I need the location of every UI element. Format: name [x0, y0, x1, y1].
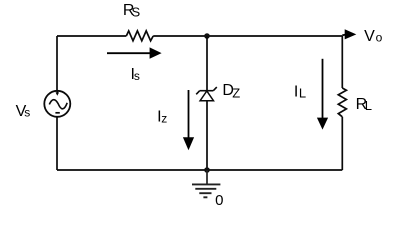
- source V1 minus sign: [55, 112, 59, 114]
- node junction dot top (node Vo): [204, 33, 210, 39]
- wire bottom horizontal: [57, 169, 342, 171]
- label IL: [294, 83, 306, 100]
- wire middle vertical lower (zener to bottom): [206, 101, 208, 171]
- source V1 label Vs: [16, 103, 31, 120]
- wire middle vertical upper (to zener): [206, 36, 208, 91]
- current arrow Is: [107, 47, 162, 58]
- current arrow IL: [317, 59, 328, 130]
- ground symbol: [192, 170, 220, 197]
- wire right vertical upper: [341, 36, 343, 88]
- label Iz: [157, 109, 167, 126]
- wire right vertical lower: [341, 117, 343, 170]
- label Vo: [364, 28, 383, 45]
- source V1 circle: [44, 91, 70, 117]
- svg-text:z: z: [161, 111, 167, 125]
- source V1 internal arrow: [56, 90, 60, 95]
- svg-text:V: V: [364, 28, 375, 45]
- svg-text:S: S: [132, 5, 141, 20]
- svg-text:0: 0: [215, 192, 223, 209]
- svg-text:s: s: [134, 69, 140, 83]
- wire left vertical (source bottom lead): [56, 117, 58, 170]
- svg-text:o: o: [376, 31, 383, 45]
- resistor RS zigzag: [126, 31, 153, 41]
- resistor RL zigzag: [338, 88, 346, 117]
- current arrow Iz: [183, 90, 194, 150]
- output arrow Vo: [342, 29, 356, 39]
- svg-text:L: L: [299, 86, 306, 101]
- svg-text:L: L: [365, 98, 372, 113]
- label Is: [131, 66, 140, 83]
- svg-text:I: I: [294, 83, 298, 100]
- node junction dot bottom (ground node): [204, 167, 210, 173]
- resistor RS label: [123, 2, 141, 20]
- wire top horizontal right segment: [153, 35, 342, 37]
- source V1 sine wave: [49, 100, 67, 109]
- wire left vertical (source top lead): [56, 36, 58, 90]
- label RL: [356, 96, 372, 113]
- zener diode DZ symbol: [196, 87, 217, 101]
- svg-text:s: s: [24, 106, 30, 120]
- wire top horizontal left segment: [57, 35, 126, 37]
- svg-text:Z: Z: [232, 86, 240, 101]
- label DZ: [222, 82, 240, 100]
